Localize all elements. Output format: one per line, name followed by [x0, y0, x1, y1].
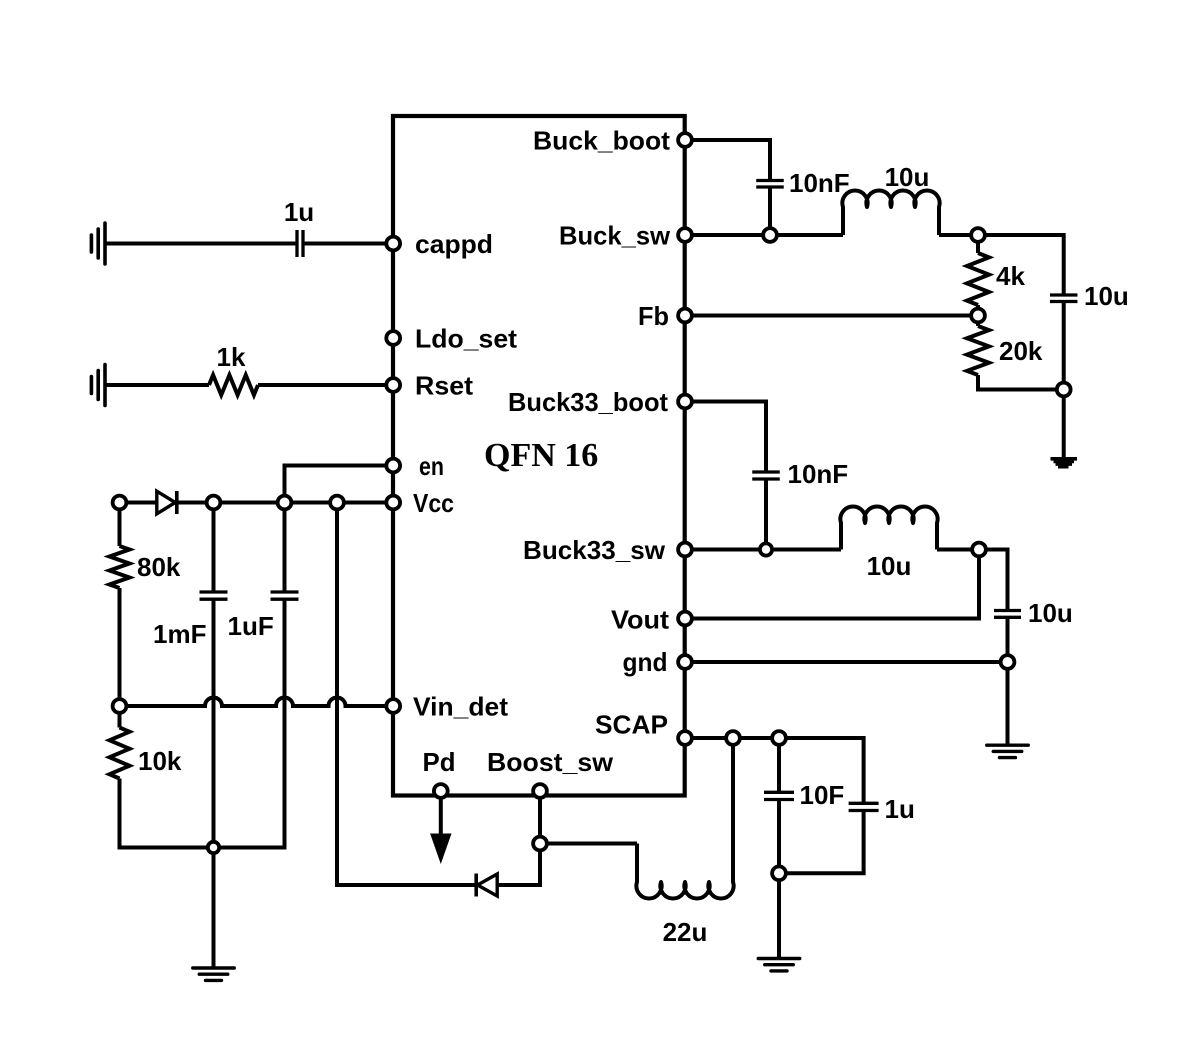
svg-text:10u: 10u: [885, 162, 930, 192]
wire pin Pd stub: [439, 798, 443, 836]
wire pin Boost_sw down: [538, 791, 542, 844]
svg-text:1k: 1k: [217, 342, 246, 372]
wire port to D1 anode: [126, 501, 156, 505]
capacitor C5 10u: [1050, 293, 1078, 296]
wire C8 top stub: [777, 738, 781, 792]
svg-text:10nF: 10nF: [789, 168, 850, 198]
node Vcc-boost junction: [330, 496, 344, 510]
wire R5 bottom to node: [976, 375, 980, 390]
wire Vcc node down to D2 (boost rail): [335, 503, 339, 886]
pin SCAP: [678, 731, 692, 745]
svg-text:Vout: Vout: [611, 605, 669, 635]
svg-text:Buck_boot: Buck_boot: [533, 126, 670, 156]
svg-text:Vin_det: Vin_det: [413, 692, 508, 722]
pin Boost_sw: [533, 784, 547, 798]
node Fb divider junction: [971, 309, 985, 323]
wire R5 top stub: [976, 316, 980, 327]
svg-text:cappd: cappd: [415, 229, 493, 259]
wire C4 to Buck_sw rail: [768, 187, 772, 235]
wire pin SCAP rail: [685, 736, 864, 740]
node C6-Buck33_sw junction: [760, 543, 772, 555]
port Vin terminal: [113, 496, 127, 510]
capacitor C9 1u: [849, 802, 879, 805]
capacitor C1 1u: [295, 230, 298, 257]
wire port down to R2: [118, 509, 122, 546]
svg-text:Vcc: Vcc: [413, 488, 454, 518]
svg-text:80k: 80k: [137, 552, 181, 582]
ground GND3 (divider net): [193, 966, 235, 969]
ground GND4 (SCAP net): [758, 957, 800, 960]
wire en net: [285, 464, 394, 468]
node SCAP-C8 junction: [772, 731, 786, 745]
capacitor C7 10u: [994, 609, 1021, 612]
svg-text:Rset: Rset: [415, 371, 473, 401]
node Vin_det-R2-R3 junction: [113, 699, 127, 713]
diode D2: [478, 874, 498, 896]
svg-text:10u: 10u: [1028, 598, 1073, 628]
wire pin Buck33_boot to C6: [685, 400, 766, 404]
svg-text:Buck33_boot: Buck33_boot: [508, 387, 668, 417]
resistor R5 20k: [967, 326, 989, 375]
wire rail to ground: [212, 848, 216, 969]
resistor R1 1k: [209, 375, 258, 395]
svg-text:en: en: [419, 451, 444, 481]
wire pin Buck33_sw to L2: [685, 548, 841, 552]
wire node to C7 top: [979, 548, 1008, 552]
wire C6 to Buck33_sw rail: [764, 479, 768, 550]
wire bottom rail: [120, 846, 285, 850]
node SCAP-L3 junction: [726, 731, 740, 745]
pin Buck33_sw: [678, 543, 692, 557]
wire Vin_det rail with hops: [120, 698, 394, 707]
pin Vout: [678, 612, 692, 626]
svg-text:Buck_sw: Buck_sw: [559, 221, 671, 251]
wire pin Fb to node: [685, 314, 978, 318]
svg-text:22u: 22u: [663, 917, 708, 947]
wire Vcc node down to C2: [212, 503, 216, 593]
wire pin Buck_boot to C4: [685, 138, 770, 142]
wire node to C5 top: [978, 233, 1064, 237]
pin Pd: [434, 784, 448, 798]
wire D2 to Boost corner: [497, 883, 542, 887]
wire L1 to node: [939, 233, 978, 237]
svg-text:1u: 1u: [885, 794, 915, 824]
wire R2 to node Vin_det: [118, 588, 122, 706]
node C8-C9 junction: [772, 866, 786, 880]
ground GND1 (cappd net): [103, 223, 107, 264]
wire Vcc node down to C3: [283, 503, 287, 593]
pin Fb: [678, 309, 692, 323]
resistor R3 10k: [110, 728, 130, 779]
capacitor C6 10nF: [752, 470, 780, 473]
pin cappd: [386, 237, 400, 251]
wire pin gnd rail: [685, 660, 1008, 664]
node Vcc-C3-en junction: [278, 496, 292, 510]
svg-text:Fb: Fb: [638, 301, 669, 331]
pin Vin_det: [386, 699, 400, 713]
svg-text:SCAP: SCAP: [595, 710, 668, 740]
inductor L1 10u: [842, 191, 939, 235]
wire SCAP corner down to C9: [862, 736, 866, 803]
pin Buck33_boot: [678, 395, 692, 409]
wire R4 to Fb node: [976, 305, 980, 316]
wire 10k top: [118, 706, 122, 728]
wire ground to C1: [105, 242, 297, 246]
svg-text:1mF: 1mF: [153, 619, 206, 649]
wire L2 to node: [937, 548, 979, 552]
svg-text:4k: 4k: [996, 261, 1025, 291]
svg-text:Buck33_sw: Buck33_sw: [523, 535, 666, 565]
pin Buck_sw: [678, 228, 692, 242]
svg-text:QFN 16: QFN 16: [484, 437, 598, 474]
pin Ldo_set: [386, 331, 400, 345]
diode D1: [157, 491, 176, 514]
node L1-R4 junction: [971, 228, 985, 242]
wire 10k bottom to rail: [118, 779, 122, 850]
wire Boost node down to diode level: [538, 844, 542, 888]
inductor L3 22u: [636, 738, 733, 898]
resistor R4 4k: [967, 253, 989, 305]
wire node to ground: [1062, 390, 1066, 458]
svg-text:10F: 10F: [800, 780, 845, 810]
svg-text:10u: 10u: [1084, 281, 1129, 311]
node bottom rail junction: [208, 842, 219, 853]
pin Rset: [386, 378, 400, 392]
wire L3 riser: [731, 738, 735, 882]
wire R4 top stub: [976, 235, 980, 253]
wire Boost node to L3: [540, 842, 637, 846]
wire C7 to gnd rail: [1006, 617, 1010, 662]
svg-text:gnd: gnd: [623, 647, 668, 677]
wire R1 to pin Rset: [258, 383, 393, 387]
node Boost_sw junction: [533, 837, 547, 851]
inductor L2 10u: [840, 507, 937, 550]
wire C1 to pin cappd: [303, 242, 393, 246]
node L2-Vout junction: [972, 543, 986, 557]
capacitor C3 1uF: [271, 590, 299, 593]
wire D1 cathode to pin Vcc (Vcc rail): [177, 501, 393, 505]
svg-text:10k: 10k: [138, 746, 182, 776]
ground GND2 (Rset net): [103, 365, 107, 406]
capacitor C2 1mF: [200, 590, 228, 593]
resistor R2 80k: [110, 546, 130, 588]
wire pin Vout rail: [685, 617, 979, 621]
wire C3 to bottom rail: [283, 599, 287, 849]
IC U1 QFN16 body: [393, 116, 685, 796]
svg-text:Boost_sw: Boost_sw: [487, 747, 614, 777]
wire C2 to bottom rail: [212, 599, 216, 847]
wire C5 to bottom node: [1062, 302, 1066, 390]
svg-text:20k: 20k: [999, 336, 1043, 366]
wire gnd node to ground: [1006, 662, 1010, 745]
node R5-C5 junction: [1057, 383, 1071, 397]
svg-text:Ldo_set: Ldo_set: [415, 324, 517, 354]
ground GND5 (gnd pin): [987, 744, 1029, 747]
capacitor C8 10F: [764, 791, 794, 794]
svg-text:1u: 1u: [284, 197, 314, 227]
svg-text:Pd: Pd: [423, 747, 456, 777]
wire C8 bottom to node: [777, 800, 781, 874]
capacitor C4 10nF: [756, 179, 784, 182]
pin gnd: [678, 655, 692, 669]
pin Buck_boot: [678, 133, 692, 147]
ground GND6 (buck output): [1051, 457, 1078, 469]
wire node to ground: [777, 873, 781, 958]
wire pin Buck_sw to L1: [685, 233, 843, 237]
wire C9 bottom to node: [862, 811, 866, 874]
arrow Pd pulldown: [431, 834, 451, 863]
svg-text:1uF: 1uF: [228, 611, 274, 641]
pin en: [386, 459, 400, 473]
svg-text:10nF: 10nF: [788, 459, 849, 489]
wire ground to R1: [105, 383, 209, 387]
node gnd-C7 junction: [1001, 655, 1015, 669]
pin Vcc: [386, 496, 400, 510]
node Vcc-C2 junction: [207, 496, 221, 510]
node Buck_boot-cap junction: [763, 228, 777, 242]
svg-text:10u: 10u: [867, 551, 912, 581]
